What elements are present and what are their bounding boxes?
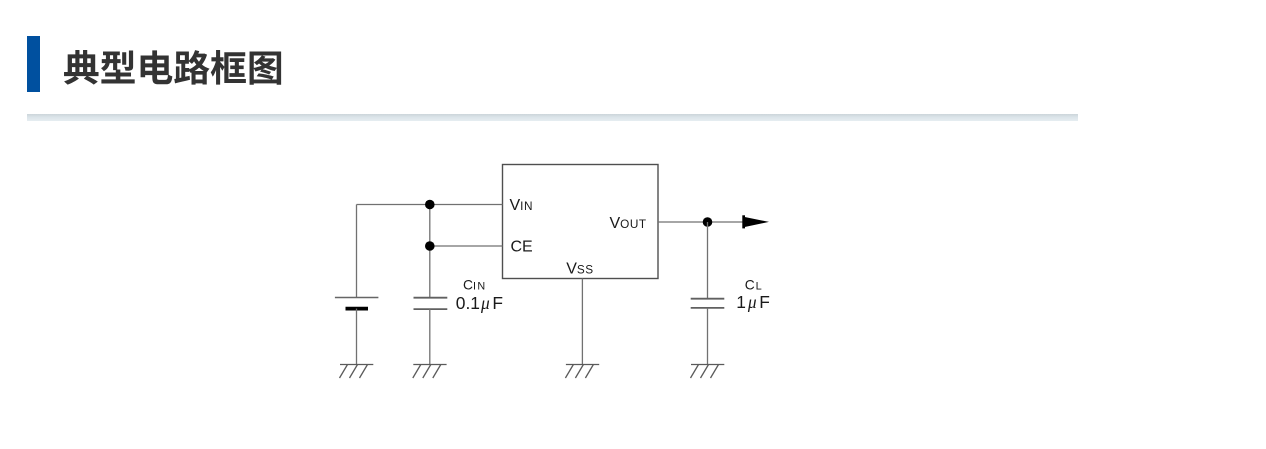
capacitor CL plates (691, 299, 725, 308)
svg-text:1μF: 1μF (736, 292, 770, 312)
section title 典型电路框图 (64, 50, 281, 85)
wire: CE horizontal (node to pin CE) (430, 245, 503, 247)
wire: VSS to ground (581, 279, 583, 365)
svg-text:VOUT: VOUT (610, 215, 647, 232)
junction node: CE tap (425, 241, 435, 251)
divider band (27, 114, 1078, 121)
wire: CL branch vertical (707, 222, 709, 299)
output arrow (742, 215, 769, 228)
svg-text:CL: CL (745, 278, 762, 293)
IC U1 (regulator block) (503, 165, 659, 279)
title accent bar (27, 36, 40, 92)
svg-text:VIN: VIN (510, 197, 533, 214)
svg-text:CE: CE (511, 239, 533, 256)
battery B1 negative plate (short thick) (346, 307, 369, 311)
junction node: VOUT / CL (703, 217, 713, 227)
wire: CIN to ground (429, 309, 431, 364)
wire: battery branch vertical (356, 205, 358, 298)
ground (VSS) (565, 365, 599, 379)
capacitor CIN plates (414, 298, 448, 309)
ground (CIN) (413, 365, 447, 379)
svg-text:CIN: CIN (463, 278, 487, 293)
wire: VIN horizontal (battery to pin VIN) (357, 204, 503, 206)
wire: CL to ground (707, 308, 709, 364)
ground (battery) (340, 365, 374, 379)
svg-text:VSS: VSS (566, 260, 593, 277)
battery B1 positive plate (long) (335, 297, 379, 299)
wire: VOUT horizontal (pin VOUT to arrow) (658, 221, 744, 223)
junction node: VIN / CIN (425, 200, 435, 210)
svg-text:0.1μF: 0.1μF (456, 293, 503, 313)
ground (CL) (691, 365, 725, 379)
wire: CIN branch vertical (VIN node down to CIN) (429, 205, 431, 298)
wire: battery to ground (356, 309, 358, 365)
